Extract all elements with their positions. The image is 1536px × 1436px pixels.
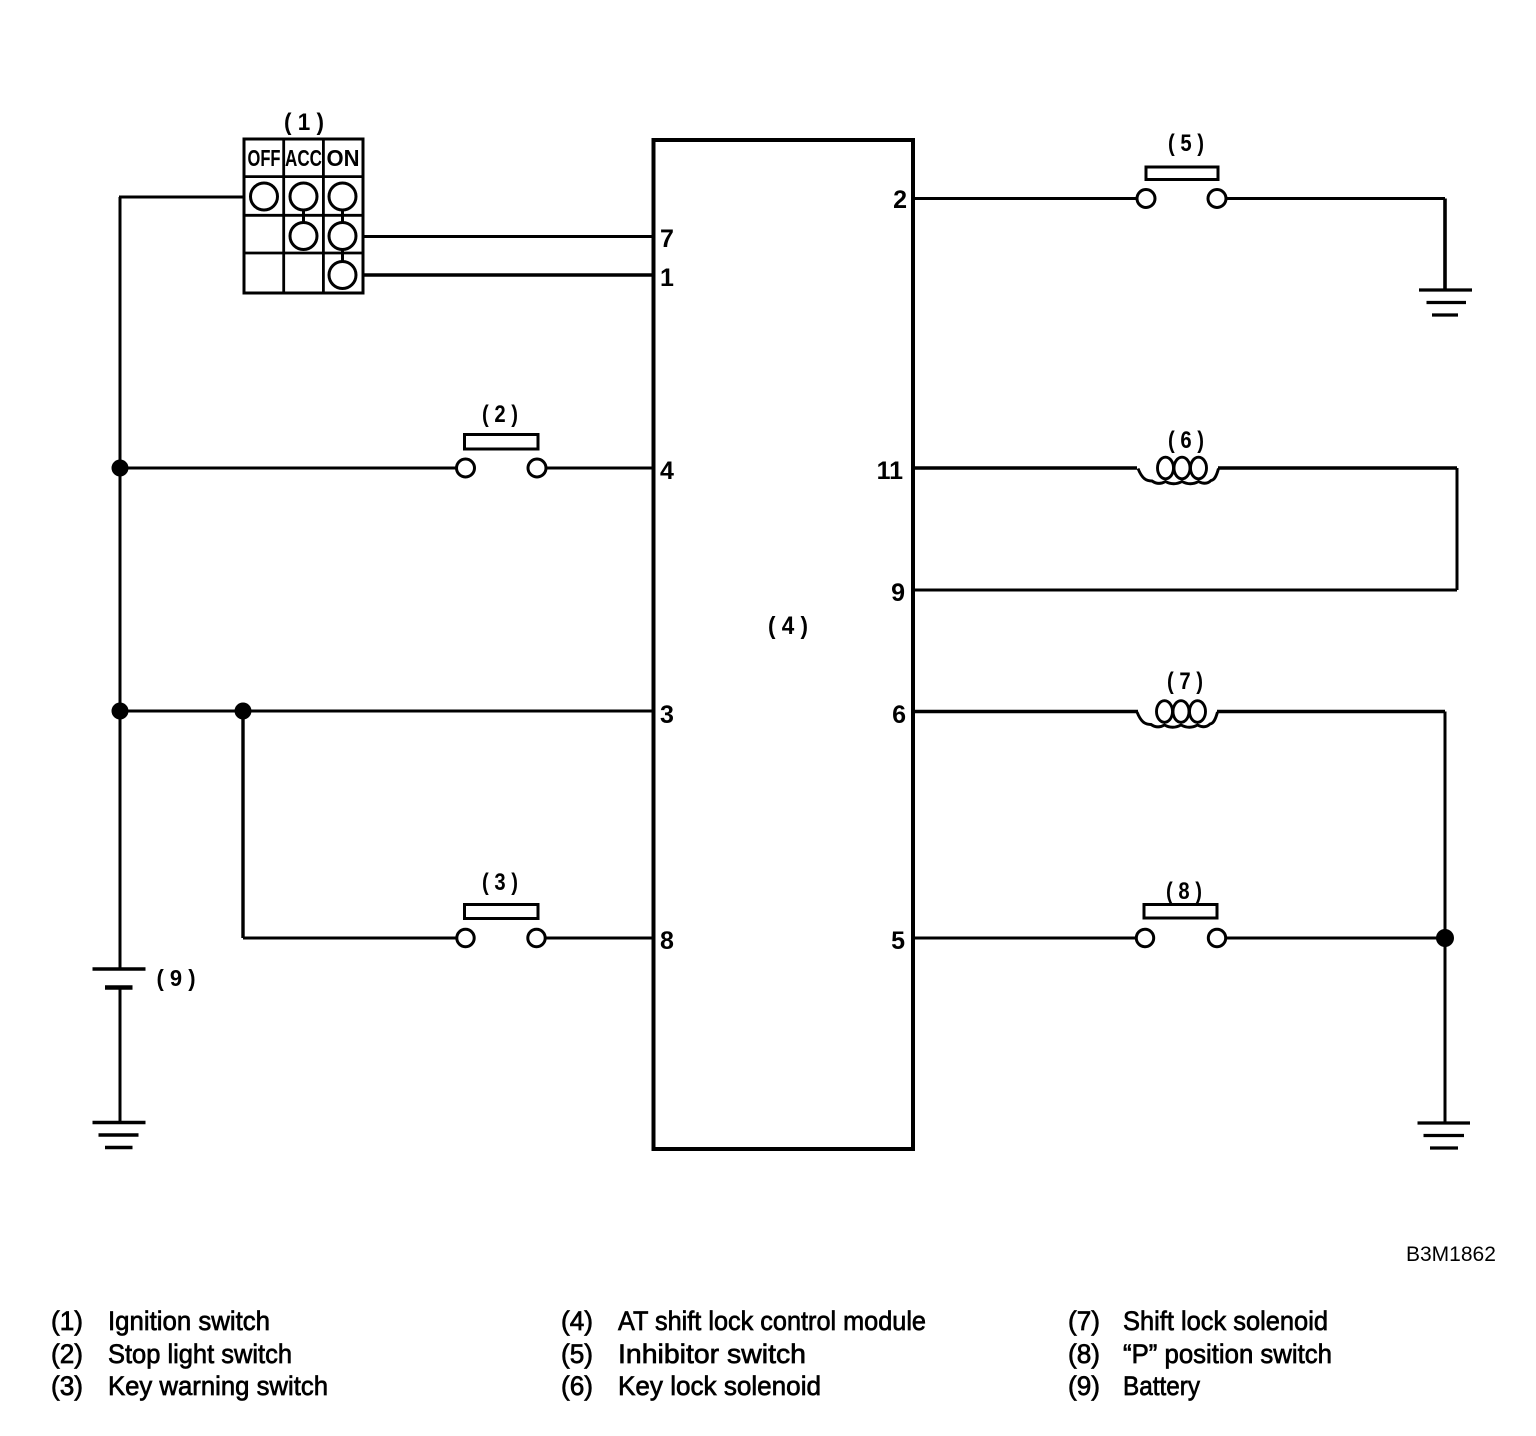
svg-text:ON: ON xyxy=(327,145,360,171)
stop light switch contact right xyxy=(528,459,546,477)
svg-text:( 8 ): ( 8 ) xyxy=(1166,878,1202,905)
P position switch contact right xyxy=(1208,929,1225,946)
ignition contact link ON r2-r3 xyxy=(341,210,344,223)
svg-text:(4): (4) xyxy=(561,1306,593,1336)
wire key warning switch to pin 8 xyxy=(546,937,654,940)
key warning switch bar xyxy=(465,905,539,919)
wire right loop vertical xyxy=(1456,468,1459,590)
svg-text:(9): (9) xyxy=(1068,1371,1100,1401)
wire P position switch to junction xyxy=(1226,937,1445,940)
inhibitor switch contact left xyxy=(1137,190,1155,208)
wire down to top-right ground xyxy=(1443,199,1447,291)
svg-text:( 1 ): ( 1 ) xyxy=(284,109,324,136)
svg-text:AT shift lock control module: AT shift lock control module xyxy=(618,1306,926,1336)
key warning switch contact right xyxy=(528,929,545,946)
svg-text:( 6 ): ( 6 ) xyxy=(1168,427,1204,454)
node junction right rail xyxy=(1436,929,1454,947)
wire ignition row3 to pin 7 xyxy=(363,235,653,238)
ignition switch grid frame xyxy=(244,139,363,293)
svg-text:2: 2 xyxy=(893,186,907,214)
ignition contact link ON r3-r4 xyxy=(341,250,344,262)
node junction left rail / pin3 row xyxy=(112,703,129,720)
ignition switch grid column lines xyxy=(284,139,324,293)
svg-text:Shift lock solenoid: Shift lock solenoid xyxy=(1123,1306,1328,1336)
P position switch bar xyxy=(1144,905,1217,919)
wire inhibitor switch to ground corner xyxy=(1226,197,1445,200)
svg-text:(3): (3) xyxy=(51,1371,83,1401)
wire left rail to pin 3 xyxy=(120,710,653,713)
ignition contact ON row2 xyxy=(329,183,356,210)
wire pin 6 to shift lock solenoid xyxy=(913,710,1138,713)
node junction key-warning branch xyxy=(235,703,252,720)
inhibitor switch contact right xyxy=(1208,190,1226,208)
svg-text:(1): (1) xyxy=(51,1306,83,1336)
svg-text:6: 6 xyxy=(892,701,906,729)
ground below battery xyxy=(93,1123,146,1148)
svg-text:ACC: ACC xyxy=(285,145,322,171)
svg-text:(2): (2) xyxy=(51,1339,83,1369)
ground top right xyxy=(1419,290,1472,315)
wire ignition to left rail xyxy=(119,196,244,199)
wire key lock solenoid to right loop xyxy=(1218,466,1457,469)
svg-text:OFF: OFF xyxy=(248,145,281,171)
ignition contact link ACC r2-r3 xyxy=(302,210,305,223)
svg-text:7: 7 xyxy=(660,225,674,253)
svg-text:Stop light switch: Stop light switch xyxy=(108,1339,292,1369)
ground bottom right xyxy=(1418,1123,1471,1148)
svg-text:8: 8 xyxy=(660,927,674,955)
key warning switch contact left xyxy=(457,929,474,946)
wire pin 11 to key lock solenoid xyxy=(913,466,1137,469)
svg-text:(8): (8) xyxy=(1068,1339,1100,1369)
wire left rail to stop light switch xyxy=(120,467,457,470)
svg-text:( 9 ): ( 9 ) xyxy=(157,965,196,991)
stop light switch contact left xyxy=(457,459,475,477)
wire left rail vertical xyxy=(119,197,122,969)
svg-text:4: 4 xyxy=(660,457,674,485)
svg-text:Inhibitor switch: Inhibitor switch xyxy=(618,1339,806,1369)
svg-text:( 3 ): ( 3 ) xyxy=(482,869,518,896)
wire key warning branch vertical xyxy=(241,711,244,938)
P position switch contact left xyxy=(1136,929,1153,946)
svg-text:9: 9 xyxy=(891,579,905,607)
svg-text:( 4 ): ( 4 ) xyxy=(768,612,808,640)
ignition contact ACC row2 xyxy=(290,183,317,210)
svg-text:( 2 ): ( 2 ) xyxy=(482,401,518,428)
ignition contact ACC row3 xyxy=(290,223,317,250)
svg-text:(6): (6) xyxy=(561,1371,593,1401)
stop light switch bar xyxy=(465,435,539,450)
ignition contact OFF row2 xyxy=(251,183,278,210)
svg-text:5: 5 xyxy=(891,927,905,955)
AT shift lock control module U(4) body xyxy=(654,140,914,1149)
wire pin 5 to P position switch xyxy=(913,937,1136,940)
svg-text:(5): (5) xyxy=(561,1339,593,1369)
wire pin 2 to inhibitor switch xyxy=(913,197,1137,200)
wire loop back to pin 9 xyxy=(913,589,1457,592)
inhibitor switch bar xyxy=(1146,167,1218,180)
svg-text:3: 3 xyxy=(660,701,674,729)
node junction left rail / stop light xyxy=(112,460,129,477)
svg-text:B3M1862: B3M1862 xyxy=(1406,1243,1496,1266)
svg-text:Key lock solenoid: Key lock solenoid xyxy=(618,1371,821,1401)
wire down to P-switch junction xyxy=(1444,712,1447,939)
svg-text:“P” position switch: “P” position switch xyxy=(1123,1339,1332,1369)
svg-text:(7): (7) xyxy=(1068,1306,1100,1336)
svg-text:( 5 ): ( 5 ) xyxy=(1168,130,1204,157)
wire ignition row4 to pin 1 xyxy=(363,273,653,277)
key lock solenoid coil xyxy=(1138,457,1219,484)
svg-text:Key warning switch: Key warning switch xyxy=(108,1371,328,1401)
ignition contact ON row3 xyxy=(329,223,356,250)
battery long plate xyxy=(93,967,146,970)
svg-text:Ignition switch: Ignition switch xyxy=(108,1306,270,1336)
svg-text:1: 1 xyxy=(660,264,674,292)
svg-text:Battery: Battery xyxy=(1123,1371,1200,1401)
wire branch to key warning switch xyxy=(243,937,457,940)
svg-text:11: 11 xyxy=(877,457,904,485)
shift lock solenoid coil xyxy=(1137,701,1218,728)
wire stop light switch to pin 4 xyxy=(546,467,653,470)
wire junction to bottom-right ground xyxy=(1444,938,1447,1123)
ignition contact ON row4 xyxy=(329,262,356,289)
ignition switch grid row lines xyxy=(244,177,363,253)
wire battery to ground xyxy=(119,988,122,1123)
battery short plate xyxy=(105,985,133,990)
wire shift lock solenoid to junction xyxy=(1217,710,1445,713)
svg-text:( 7 ): ( 7 ) xyxy=(1167,668,1203,695)
